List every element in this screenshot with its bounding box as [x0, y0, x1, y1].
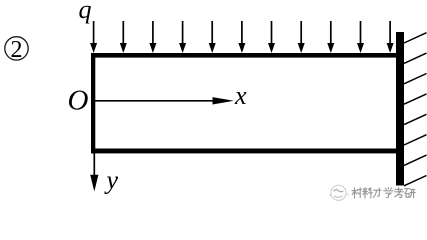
distributed load arrow 6 [238, 21, 245, 53]
wall hatch 8 [404, 176, 427, 186]
distributed load arrow 10 [357, 21, 364, 53]
svg-text:O: O [68, 85, 89, 117]
distributed load arrow 1 [90, 21, 97, 53]
distributed load arrow 3 [149, 21, 156, 53]
fixed support wall bar [396, 32, 404, 186]
distributed load arrow 7 [268, 21, 275, 53]
distributed load arrow 8 [298, 21, 305, 53]
distributed load arrow 11 [387, 21, 394, 53]
watermark logo [330, 185, 349, 200]
svg-text:2: 2 [11, 37, 23, 63]
x axis line [95, 100, 215, 102]
wall hatch 3 [404, 74, 427, 84]
beam bottom edge [91, 149, 396, 154]
wall hatch 7 [404, 155, 427, 165]
beam left edge [91, 53, 95, 153]
circled number 2 [5, 37, 28, 63]
wall hatch 6 [404, 135, 427, 145]
svg-text:x: x [234, 81, 247, 110]
distributed load arrow 5 [209, 21, 216, 53]
wall hatch 2 [404, 53, 427, 63]
x axis arrowhead [213, 97, 234, 104]
y axis arrowhead [90, 175, 98, 192]
distributed load arrow 4 [179, 21, 186, 53]
svg-text:q: q [79, 0, 92, 24]
distributed load arrow 9 [327, 21, 334, 53]
wall hatch 1 [404, 33, 427, 43]
watermark text 材料力学考研 [352, 188, 415, 198]
distributed load arrow 2 [120, 21, 127, 53]
svg-text:y: y [104, 166, 119, 195]
y axis line [93, 153, 95, 177]
beam top edge [91, 53, 396, 58]
wall hatch 5 [404, 114, 427, 124]
wall hatch 4 [404, 94, 427, 104]
